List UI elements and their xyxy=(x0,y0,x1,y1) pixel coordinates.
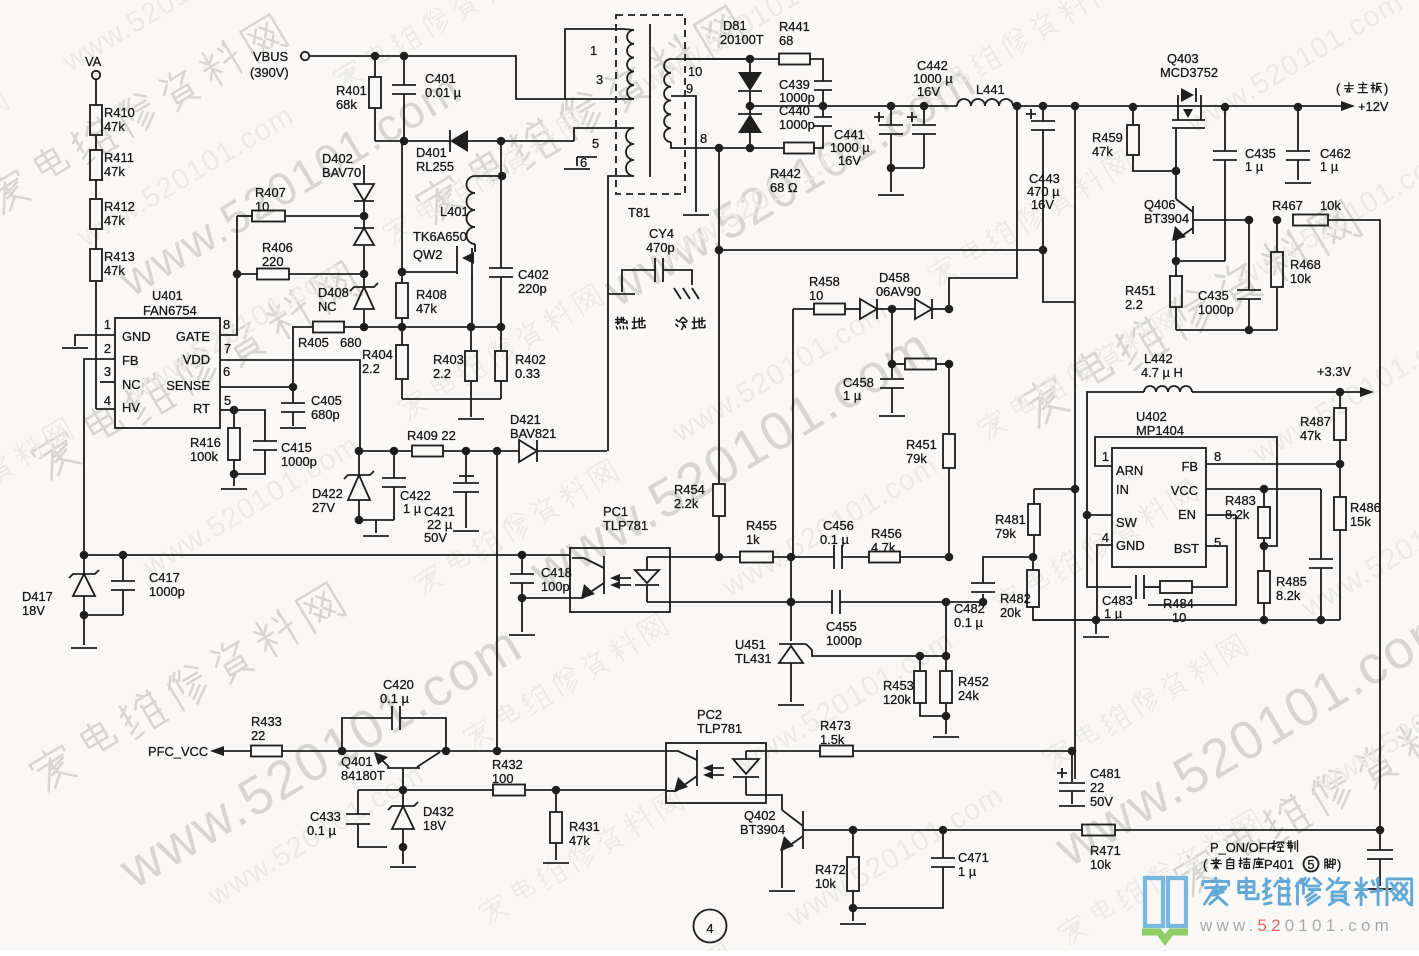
svg-text:0.1 µ: 0.1 µ xyxy=(820,532,850,547)
svg-text:4: 4 xyxy=(104,393,111,408)
svg-text:8.2k: 8.2k xyxy=(1225,507,1250,522)
svg-text:VA: VA xyxy=(85,54,102,69)
svg-text:BT3904: BT3904 xyxy=(740,822,785,837)
node IN feed/R481 xyxy=(1071,485,1080,494)
wire 12V secondary rail xyxy=(750,105,957,107)
svg-text:BT3904: BT3904 xyxy=(1144,211,1189,226)
svg-text:0.1 µ: 0.1 µ xyxy=(380,691,410,706)
svg-text:U401: U401 xyxy=(152,288,183,303)
svg-text:GND: GND xyxy=(1116,538,1145,553)
svg-text:+12V: +12V xyxy=(1358,99,1389,114)
arrow +12V output xyxy=(1341,101,1355,111)
resistor R452 xyxy=(945,602,947,656)
node SENSE/C405 xyxy=(289,383,298,392)
node C418 bottom xyxy=(518,594,527,603)
wire pin 10 xyxy=(671,58,750,60)
svg-text:C415: C415 xyxy=(281,440,312,455)
T81 pin 8 wire xyxy=(671,142,750,148)
resistor R451 79k xyxy=(948,364,950,434)
node U402 gnd xyxy=(1092,616,1101,625)
svg-text:): ) xyxy=(1384,81,1388,96)
transformer T81 dashed box xyxy=(616,15,685,194)
svg-text:QW2: QW2 xyxy=(413,247,442,262)
ground hot xyxy=(609,293,635,295)
svg-text:R442: R442 xyxy=(770,166,801,181)
svg-text:100: 100 xyxy=(492,771,514,786)
wire to IN feed xyxy=(1043,250,1075,302)
node C443 top xyxy=(1039,102,1048,111)
capacitor C417 xyxy=(122,555,124,581)
resistor R468 xyxy=(1276,220,1278,252)
resistor R457 between nodes xyxy=(905,359,936,370)
node C481 top xyxy=(1068,747,1077,756)
opto PC1 TLP781 box xyxy=(570,548,670,612)
svg-text:79k: 79k xyxy=(906,451,927,466)
svg-text:P401: P401 xyxy=(1264,857,1294,872)
node D432 bottom xyxy=(399,843,408,852)
svg-text:MCD3752: MCD3752 xyxy=(1160,65,1218,80)
svg-text:Q402: Q402 xyxy=(744,808,776,823)
svg-text:5: 5 xyxy=(1307,857,1314,872)
capacitor C405 xyxy=(292,387,294,403)
PC2 light arrows xyxy=(706,768,724,775)
svg-text:R451: R451 xyxy=(906,437,937,452)
svg-text:5: 5 xyxy=(592,136,599,151)
resistor R467 xyxy=(1293,215,1328,226)
svg-text:RT: RT xyxy=(193,401,210,416)
node R472 bottom xyxy=(849,904,858,913)
svg-text:0.01 µ: 0.01 µ xyxy=(425,85,462,100)
ground below C462 xyxy=(1285,182,1311,184)
svg-text:8: 8 xyxy=(700,131,707,146)
node R487 top xyxy=(1336,388,1345,397)
svg-text:18V: 18V xyxy=(22,603,45,618)
wire drain snubber row xyxy=(375,140,450,142)
svg-text:20k: 20k xyxy=(1000,605,1021,620)
node SW xyxy=(1083,511,1092,520)
node C417 xyxy=(119,551,128,560)
svg-text:1 µ: 1 µ xyxy=(403,501,422,516)
svg-text:47k: 47k xyxy=(569,833,590,848)
wire D422-C422 bottom xyxy=(359,519,394,521)
resistor R483 xyxy=(1258,507,1270,538)
svg-text:1: 1 xyxy=(1102,449,1109,464)
svg-text:47k: 47k xyxy=(104,213,125,228)
wire emitter to C435 xyxy=(1176,260,1225,262)
svg-text:1: 1 xyxy=(104,317,111,332)
svg-text:1 µ: 1 µ xyxy=(1104,606,1123,621)
svg-text:R456: R456 xyxy=(871,526,902,541)
node R401 top xyxy=(371,52,380,61)
svg-text:ARN: ARN xyxy=(1116,463,1143,478)
U402 EN wire xyxy=(1206,514,1236,516)
wire C441/C442 common xyxy=(891,167,924,169)
svg-text:R455: R455 xyxy=(746,518,777,533)
node D458 mid xyxy=(888,305,897,314)
Q401 emitter xyxy=(376,754,389,767)
svg-text:Q401: Q401 xyxy=(341,754,373,769)
svg-text:D408: D408 xyxy=(318,285,349,300)
Q402 emitter ground xyxy=(781,850,783,888)
resistor R485 xyxy=(1263,546,1265,571)
capacitor C420 xyxy=(342,718,392,751)
label cold ground xyxy=(676,317,705,329)
svg-text:C417: C417 xyxy=(149,570,180,585)
ground below Q402 xyxy=(769,890,795,892)
svg-text:68: 68 xyxy=(779,33,793,48)
zener D408 NC xyxy=(363,274,365,287)
svg-text:0.33: 0.33 xyxy=(515,366,540,381)
svg-text:C481: C481 xyxy=(1090,766,1121,781)
node right column xyxy=(1376,826,1385,835)
svg-text:+3.3V: +3.3V xyxy=(1317,364,1351,379)
resistor R431 xyxy=(555,790,557,812)
svg-text:R471: R471 xyxy=(1090,843,1121,858)
node branch xyxy=(493,747,502,756)
wire to T81 pin1 xyxy=(565,29,624,99)
U402 pin1 outer wire xyxy=(1095,437,1277,546)
diode D401 RL255 xyxy=(450,130,468,152)
svg-text:1 µ: 1 µ xyxy=(958,864,977,879)
svg-text:120k: 120k xyxy=(883,692,912,707)
PC1 pins right xyxy=(647,556,718,558)
svg-text:5: 5 xyxy=(224,393,231,408)
U402 FB wire xyxy=(1206,463,1340,465)
node D417 bottom xyxy=(80,611,89,620)
node R452/ref xyxy=(942,652,951,661)
svg-text:8: 8 xyxy=(223,317,230,332)
pin 6 stub xyxy=(577,156,597,158)
svg-text:47k: 47k xyxy=(1300,428,1321,443)
wire D417/C417 common xyxy=(84,614,123,616)
svg-text:47k: 47k xyxy=(104,119,125,134)
node pin8 branch xyxy=(715,144,724,153)
svg-text:C456: C456 xyxy=(823,518,854,533)
PC2 LED anode wire xyxy=(746,750,820,752)
node C401 bottom xyxy=(400,137,409,146)
node source rail right xyxy=(497,323,506,332)
svg-text:10: 10 xyxy=(688,64,702,79)
node R452 top xyxy=(942,598,951,607)
capacitor near R486 xyxy=(1320,489,1322,559)
U402 SW wire xyxy=(1087,514,1112,516)
svg-text:C433: C433 xyxy=(310,809,341,824)
wire to R433 xyxy=(224,750,251,752)
Q406 base wire xyxy=(1193,219,1249,221)
ground pin 6 xyxy=(564,168,590,170)
node R485 bottom xyxy=(1260,616,1269,625)
wire R408 column xyxy=(401,141,403,283)
resistor R433 xyxy=(251,746,282,757)
wire source rail xyxy=(364,326,501,328)
node snubber mid xyxy=(819,102,828,111)
node D458 cathode xyxy=(945,305,954,314)
svg-text:10k: 10k xyxy=(1290,271,1311,286)
ground below D417 xyxy=(71,647,97,649)
wire bottom common xyxy=(1176,329,1277,331)
node C401 top xyxy=(400,52,409,61)
resistor R486 xyxy=(1339,464,1341,497)
svg-text:R473: R473 xyxy=(820,718,851,733)
wire drain column xyxy=(500,141,502,176)
Q406 emitter xyxy=(1176,228,1193,261)
resistor R458 xyxy=(792,309,794,557)
svg-text:D81: D81 xyxy=(723,18,747,33)
node C458 top xyxy=(888,360,897,369)
wire to ground xyxy=(233,474,235,486)
IC U401 FAN6754 xyxy=(115,318,220,428)
svg-text:VDD: VDD xyxy=(183,352,210,367)
diode D81 lower xyxy=(738,114,762,133)
svg-text:): ) xyxy=(1337,857,1341,872)
svg-text:1000p: 1000p xyxy=(826,633,862,648)
resistor R402 xyxy=(500,327,502,351)
transistor Q406 BT3904 xyxy=(1192,206,1194,234)
wire sense bottom bus xyxy=(402,398,501,400)
node source rail xyxy=(467,323,476,332)
PC1 phototransistor xyxy=(603,556,605,594)
svg-text:7: 7 xyxy=(224,341,231,356)
node Q401 base xyxy=(399,786,408,795)
svg-text:TK6A650: TK6A650 xyxy=(413,229,467,244)
node bottom common xyxy=(1245,326,1254,335)
capacitor C418 xyxy=(521,555,523,574)
wire U402 ground rail xyxy=(1033,619,1340,621)
svg-text:R410: R410 xyxy=(104,105,135,120)
svg-text:15k: 15k xyxy=(1350,514,1371,529)
svg-text:TL431: TL431 xyxy=(735,651,772,666)
resistor R481 xyxy=(1033,489,1035,504)
PC2 LED xyxy=(733,759,759,774)
logo text Chinese xyxy=(1203,878,1412,905)
U401 pin8 GATE wire xyxy=(220,216,237,335)
svg-text:27V: 27V xyxy=(312,500,335,515)
svg-text:220: 220 xyxy=(262,254,284,269)
node L401 top xyxy=(498,172,507,181)
svg-text:R433: R433 xyxy=(251,714,282,729)
node RT xyxy=(230,406,239,415)
ground below C405 xyxy=(280,427,306,429)
node R452 bottom xyxy=(942,712,951,721)
resistor R401 xyxy=(374,56,376,77)
svg-text:D432: D432 xyxy=(423,804,454,819)
U401 pin5 RT wire xyxy=(220,409,234,411)
diode D421 BAV821 xyxy=(519,440,537,462)
U401 pin4 HV wire xyxy=(96,408,115,410)
svg-text:R409 22: R409 22 xyxy=(407,428,456,443)
svg-text:L442: L442 xyxy=(1144,351,1173,366)
wire R467 to P_ON rail xyxy=(1328,220,1380,829)
node C443 bottom xyxy=(1039,246,1048,255)
svg-text:FAN6754: FAN6754 xyxy=(143,303,197,318)
node R456 right xyxy=(945,553,954,562)
label hot ground xyxy=(616,317,645,329)
capacitor C415 xyxy=(234,410,265,441)
arrow +3.3V xyxy=(1360,387,1374,397)
capacitor C433 xyxy=(357,790,359,814)
svg-text:C471: C471 xyxy=(958,850,989,865)
svg-text:0.1 µ: 0.1 µ xyxy=(307,823,337,838)
svg-text:Q403: Q403 xyxy=(1167,51,1199,66)
zener D422 xyxy=(358,451,360,475)
resistor R412 xyxy=(90,199,102,229)
svg-text:1: 1 xyxy=(590,43,597,58)
wire R412-R413 xyxy=(95,229,97,249)
capacitor at right bottom xyxy=(1379,830,1381,850)
resistor R451 2.2 xyxy=(1175,261,1177,276)
node cap common xyxy=(887,164,896,173)
PC2 phototransistor xyxy=(696,750,698,786)
svg-text:R404: R404 xyxy=(362,347,393,362)
opto PC2 TLP781 box xyxy=(666,743,766,803)
node R481/R482 xyxy=(1029,553,1038,562)
node C482 bottom xyxy=(979,598,988,607)
svg-text:GATE: GATE xyxy=(176,329,211,344)
svg-text:3: 3 xyxy=(104,364,111,379)
ground below U451 xyxy=(778,704,804,706)
svg-text:R402: R402 xyxy=(515,352,546,367)
svg-text:R467: R467 xyxy=(1272,198,1303,213)
svg-text:R485: R485 xyxy=(1276,574,1307,589)
resistor R411 xyxy=(90,150,102,180)
transistor Q403 channel and gate xyxy=(1177,107,1179,120)
svg-text:D401: D401 xyxy=(416,145,447,160)
wire D458 to rail xyxy=(949,106,1017,309)
resistor R432 xyxy=(493,785,525,796)
svg-text:R484: R484 xyxy=(1163,596,1194,611)
PC2 LED cathode wire xyxy=(746,795,782,810)
svg-text:R407: R407 xyxy=(255,185,286,200)
ground at U401 pin1 xyxy=(62,347,88,349)
capacitor C439 xyxy=(814,81,832,90)
svg-text:R431: R431 xyxy=(569,819,600,834)
inductor L401 xyxy=(475,175,502,177)
diode D458 second xyxy=(915,299,932,319)
svg-text:100p: 100p xyxy=(541,579,570,594)
svg-text:4: 4 xyxy=(706,921,713,936)
svg-text:L401: L401 xyxy=(440,204,469,219)
node rail/IN feed xyxy=(1071,102,1080,111)
svg-text:R454: R454 xyxy=(674,482,705,497)
resistor R408 xyxy=(396,283,408,318)
svg-text:R411: R411 xyxy=(104,150,134,165)
svg-text:NC: NC xyxy=(122,377,141,392)
svg-text:0.1 µ: 0.1 µ xyxy=(954,615,984,630)
Q402 emitter xyxy=(782,836,803,850)
PC1 light arrows xyxy=(613,578,631,585)
node R431 top xyxy=(552,786,561,795)
svg-text:C482: C482 xyxy=(954,601,985,616)
end bar C481 xyxy=(1059,805,1085,807)
node FB/R487/R486 xyxy=(1336,460,1345,469)
svg-text:220p: 220p xyxy=(518,281,547,296)
resistor R405 xyxy=(293,327,313,387)
resistor R473 xyxy=(820,746,853,757)
svg-text:(: ( xyxy=(1203,857,1208,872)
T81 aux winding bottom wire xyxy=(608,176,634,451)
ground below D422 xyxy=(363,535,389,537)
node R483 top xyxy=(1260,485,1269,494)
svg-text:16V: 16V xyxy=(1031,197,1054,212)
node D417 xyxy=(80,551,89,560)
capacitor C401 xyxy=(403,56,405,85)
capacitor C435 1000p xyxy=(1248,220,1250,290)
shunt reg U451 TL431 xyxy=(779,646,803,663)
diode D402 BAV70 (dual) xyxy=(363,165,365,184)
svg-text:1 µ: 1 µ xyxy=(1320,159,1339,174)
transistor Q401 84180T xyxy=(387,767,420,769)
wire branch down to opto rail xyxy=(496,451,498,751)
svg-text:8.2k: 8.2k xyxy=(1276,588,1301,603)
node gate xyxy=(398,268,407,277)
svg-text:50V: 50V xyxy=(1090,794,1113,809)
svg-text:R405: R405 xyxy=(298,335,329,350)
node D402/D408 top xyxy=(360,270,369,279)
resistor R454 xyxy=(713,484,725,516)
resistor R404 xyxy=(396,345,408,379)
svg-text:R452: R452 xyxy=(958,674,989,689)
wire +12V rail xyxy=(1013,105,1341,107)
ground below C418 xyxy=(509,634,535,636)
capacitor C458 xyxy=(891,309,893,359)
svg-text:D458: D458 xyxy=(879,270,910,285)
svg-text:680p: 680p xyxy=(311,407,340,422)
Q401 collector xyxy=(417,752,440,767)
capacitor C421 electrolytic xyxy=(465,451,467,483)
svg-text:5: 5 xyxy=(1214,535,1221,550)
svg-text:68k: 68k xyxy=(336,97,357,112)
wire opto feedback rail xyxy=(84,554,570,556)
node R468 top xyxy=(1273,216,1282,225)
svg-text:R472: R472 xyxy=(815,862,846,877)
svg-text:MP1404: MP1404 xyxy=(1136,423,1184,438)
resistor R482 xyxy=(1032,557,1034,570)
node Q406 emitter xyxy=(1172,257,1181,266)
svg-text:1000p: 1000p xyxy=(281,454,317,469)
ground U402 xyxy=(1083,636,1109,638)
svg-text:16V: 16V xyxy=(917,84,940,99)
resistor R456 xyxy=(869,552,900,563)
node C471 top xyxy=(939,826,948,835)
ground below R431 xyxy=(543,862,569,864)
node C435 top xyxy=(1221,103,1230,112)
svg-text:C455: C455 xyxy=(826,619,857,634)
IC U402 MP1404 box xyxy=(1112,448,1206,567)
svg-text:1000p: 1000p xyxy=(1198,302,1234,317)
svg-text:47k: 47k xyxy=(104,164,125,179)
Q401 base wire xyxy=(402,768,404,790)
svg-text:8: 8 xyxy=(1214,449,1221,464)
node C422 top xyxy=(390,447,399,456)
svg-text:1 µ: 1 µ xyxy=(843,388,862,403)
svg-text:470p: 470p xyxy=(646,240,675,255)
node C418 top xyxy=(518,551,527,560)
node C435b top xyxy=(1245,216,1254,225)
Q402 base diag xyxy=(782,810,803,826)
svg-text:D417: D417 xyxy=(22,589,53,604)
svg-text:22: 22 xyxy=(1090,780,1104,795)
svg-text:TLP781: TLP781 xyxy=(603,518,648,533)
ground below R416 xyxy=(221,488,247,490)
svg-text:2.2: 2.2 xyxy=(433,366,451,381)
node gate/R406 xyxy=(233,270,242,279)
node D401 cathode xyxy=(497,137,506,146)
node VDD/D422/R409 xyxy=(355,447,364,456)
node cap bottom xyxy=(1317,616,1326,625)
PC1 LED xyxy=(635,570,659,583)
wire SW riser to L442 xyxy=(1087,392,1144,515)
wire VA to R410 xyxy=(95,79,97,105)
